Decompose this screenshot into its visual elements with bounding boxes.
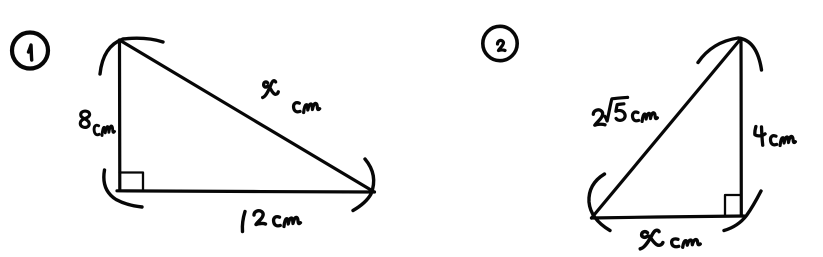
label 2 (hypotenuse 2) [593,110,605,125]
triangle 1: bottom leg (12 cm side) [117,191,375,192]
triangle 2: hypotenuse (2 root 5 side) [592,39,742,219]
problem number badge 2 : circle [483,26,517,60]
problem number badge 1 : circle [12,33,48,69]
label cm (hypotenuse 2) [632,112,657,121]
label cm (right leg 2) [770,136,795,146]
triangle 1: arc tick at bottom-left vertex [104,170,142,207]
triangle 1: arc tick at right vertex [353,159,374,211]
label 8 [80,111,89,127]
triangle 2: right-angle square at bottom-right [725,195,741,216]
label root 5 (hypotenuse 2) [605,97,628,121]
triangle 2: arc tick at bottom-left vertex [589,174,610,231]
label cm (hypotenuse 1) [294,103,320,113]
label x (bottom 2) [640,230,663,249]
label 12 [242,212,245,232]
triangle 1: arc tick at top vertex [100,38,163,74]
triangle 2: bottom leg (x cm side) [592,216,745,218]
triangle 1: hypotenuse (x cm side) [120,40,374,192]
label 4 [755,127,765,146]
triangle 1: vertical leg (8 cm side) [118,40,122,191]
digit 1 inside badge [29,45,32,60]
label cm after 8 [94,125,114,135]
triangle 1: right-angle square at bottom-left [120,173,144,191]
triangle 2: arc tick at top vertex [698,38,762,70]
triangle 2: arc tick at bottom-right vertex [724,191,761,231]
triangle 2: vertical leg (4 cm side) [739,39,742,217]
digit 2 inside badge [498,40,506,50]
label cm (bottom 2) [672,239,701,247]
label x (hypotenuse 1) [263,81,279,98]
label cm (bottom 1) [274,217,301,227]
